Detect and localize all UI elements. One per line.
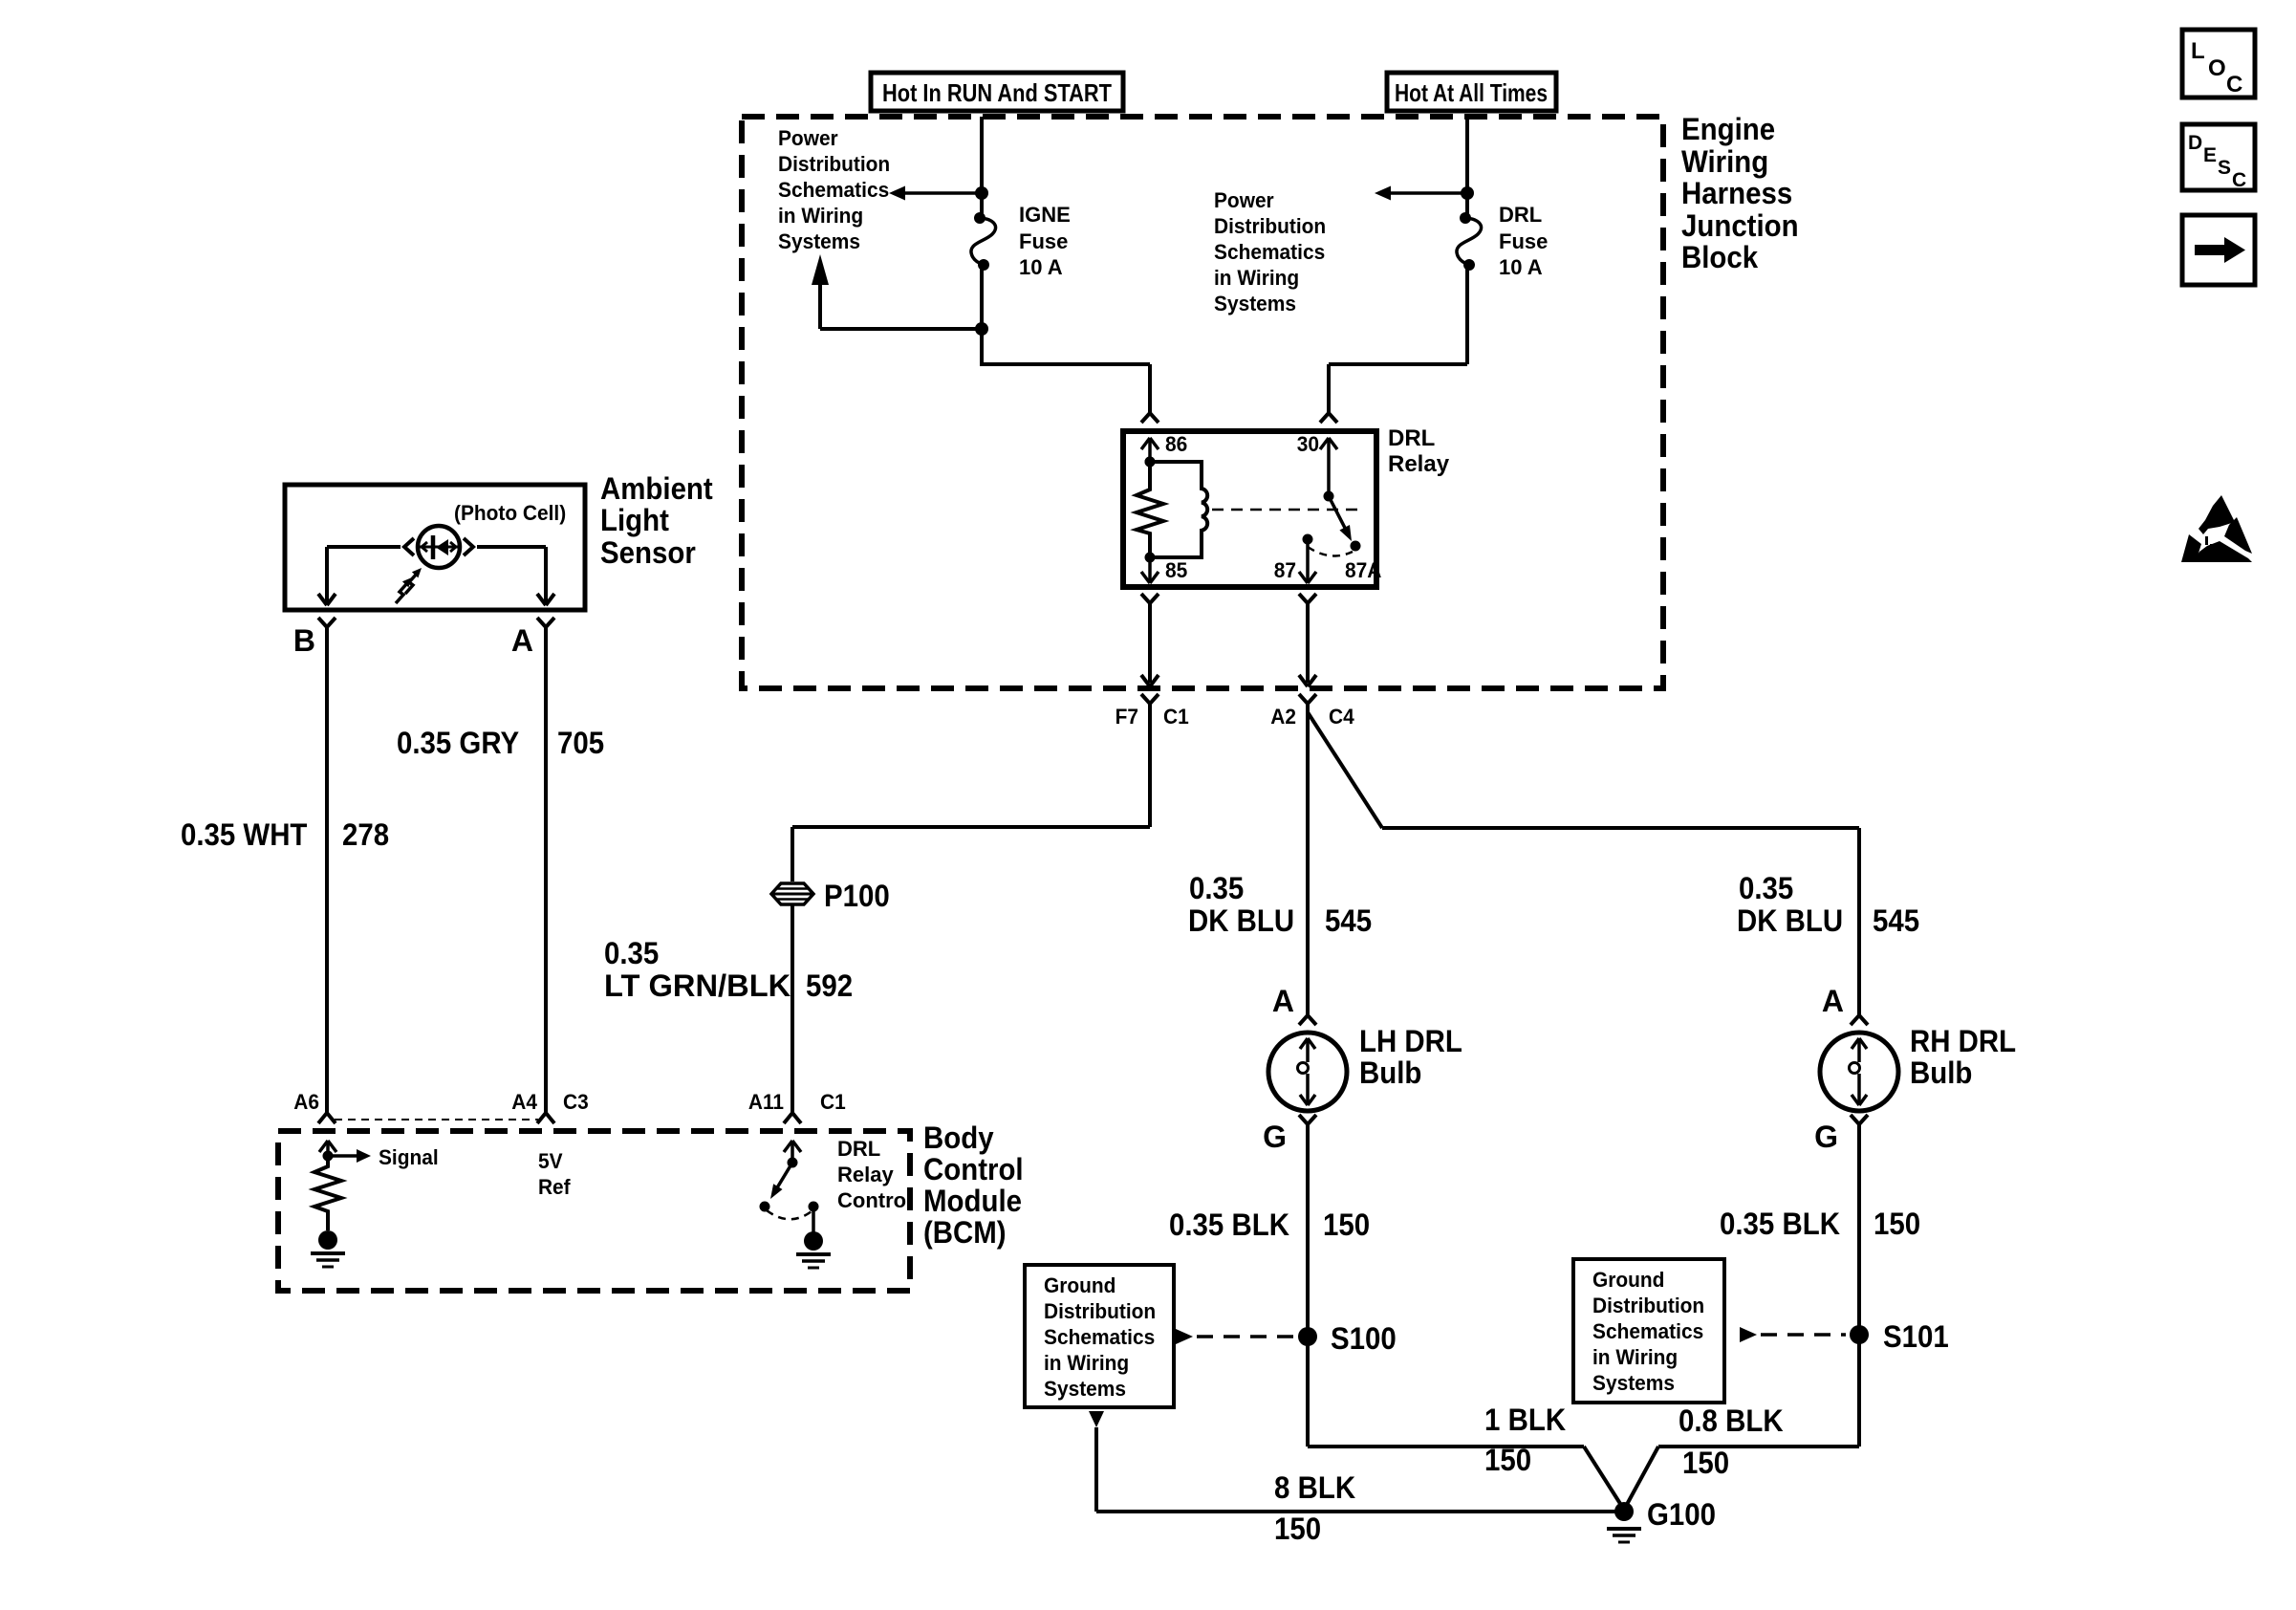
svg-text:Control: Control (837, 1188, 912, 1212)
svg-text:1 BLK: 1 BLK (1484, 1403, 1566, 1437)
svg-text:G: G (1814, 1120, 1838, 1154)
wire label: 1 BLK 150 (1484, 1403, 1566, 1477)
svg-text:150: 150 (1874, 1207, 1920, 1241)
svg-text:86: 86 (1165, 432, 1187, 456)
pin label A (sensor) (511, 623, 533, 658)
sensor pin B (male arrow) (318, 547, 336, 605)
connector fork below relay pin 85 (1141, 594, 1159, 609)
wire: relay 87 to junction block edge (A2) (1299, 609, 1316, 686)
svg-text:Wiring: Wiring (1681, 144, 1768, 179)
wire label: 0.35 WHT 278 (181, 817, 389, 852)
wire: LH bulb to S100 (1306, 1130, 1310, 1337)
fuse IGNE 10 A (971, 212, 996, 271)
svg-text:Fuse: Fuse (1499, 229, 1548, 253)
svg-text:545: 545 (1873, 903, 1919, 938)
connector label C1 (1163, 705, 1189, 729)
svg-text:in Wiring: in Wiring (1592, 1345, 1678, 1369)
svg-text:278: 278 (342, 817, 389, 852)
wire: A2 down to LH DRL bulb (1306, 709, 1310, 1010)
svg-text:A6: A6 (293, 1090, 319, 1114)
label: Engine Wiring Harness Junction Block (1681, 112, 1799, 274)
svg-text:DK BLU: DK BLU (1188, 903, 1294, 938)
node: junction to power distribution arrow (IGNE side) (975, 186, 988, 200)
svg-text:8 BLK: 8 BLK (1274, 1470, 1355, 1505)
svg-text:Systems: Systems (1592, 1371, 1675, 1395)
svg-text:0.35: 0.35 (1739, 871, 1793, 905)
connector fork below LH bulb (1299, 1115, 1316, 1130)
label: Body Control Module (BCM) (923, 1120, 1024, 1250)
node: coil top (1145, 457, 1156, 468)
svg-text:D: D (2188, 132, 2202, 154)
inline connector P100 (771, 883, 813, 904)
pin label G (RH bulb) (1814, 1120, 1838, 1154)
icon: DESC box (2182, 124, 2255, 191)
dashed actuation link coil to switch (1212, 509, 1359, 511)
svg-text:Systems: Systems (1044, 1377, 1126, 1401)
svg-text:Light: Light (600, 503, 669, 537)
inline chevron right of photo cell (464, 538, 473, 555)
connector fork at BCM A4 (537, 1105, 554, 1123)
label: Power Distribution Schematics in Wiring Systems (center) (1214, 188, 1326, 315)
svg-text:Fuse: Fuse (1019, 229, 1068, 253)
svg-text:Ambient: Ambient (600, 471, 713, 506)
svg-text:Relay: Relay (1388, 451, 1450, 477)
dashed alternate throw arc (BCM switch) (767, 1210, 812, 1219)
svg-text:0.8 BLK: 0.8 BLK (1679, 1403, 1784, 1438)
lamp RH DRL Bulb (1820, 1033, 1898, 1111)
wire: 8 BLK 150 to G100 (1096, 1510, 1622, 1513)
pin label A11 (748, 1090, 784, 1114)
wire label: 0.8 BLK 150 (1679, 1403, 1784, 1480)
fuse DRL 10 A (1457, 212, 1482, 271)
pin label A2 (1270, 705, 1296, 729)
svg-text:150: 150 (1682, 1446, 1729, 1480)
svg-text:Harness: Harness (1681, 176, 1792, 210)
svg-text:G100: G100 (1647, 1497, 1716, 1532)
BCM pin A11 male arrow + node (784, 1141, 801, 1168)
svg-text:E: E (2203, 144, 2217, 166)
svg-text:C1: C1 (1163, 705, 1189, 729)
svg-text:in Wiring: in Wiring (778, 204, 863, 228)
dashed reference link to S100 (1176, 1329, 1294, 1344)
svg-text:P100: P100 (824, 879, 890, 913)
svg-text:C: C (2232, 169, 2246, 191)
wire: battery feed from Hot In RUN And START to IGNE fuse (980, 117, 984, 214)
Ground Distribution reference box (right) (1573, 1259, 1724, 1403)
svg-text:O: O (2208, 55, 2226, 81)
wire: S100 down and over to G100 (1308, 1337, 1624, 1510)
connector C4 fork at A2 (1299, 694, 1316, 709)
label: (Photo Cell) (454, 501, 566, 525)
svg-text:LH DRL: LH DRL (1359, 1024, 1462, 1058)
svg-text:G: G (1263, 1120, 1287, 1154)
svg-text:C4: C4 (1329, 705, 1354, 729)
label: Power Distribution Schematics in Wiring Systems (left) (778, 126, 890, 253)
svg-text:DRL: DRL (1388, 425, 1435, 451)
sensor pin A (male arrow) (537, 547, 554, 605)
svg-text:C3: C3 (563, 1090, 589, 1114)
svg-text:Bulb: Bulb (1910, 1055, 1972, 1090)
svg-text:10 A: 10 A (1499, 255, 1543, 279)
wire: battery feed from Hot At All Times to DRL fuse (1465, 117, 1469, 214)
connector fork at relay pin 86 (1141, 407, 1159, 423)
connector fork at BCM A6 (318, 1105, 336, 1123)
svg-text:705: 705 (557, 726, 604, 760)
label P100 (824, 879, 890, 913)
dashed alternate throw arc 87 to 87A (1308, 547, 1353, 555)
pin label A6 (293, 1090, 319, 1114)
label: Signal (379, 1145, 439, 1169)
svg-text:in Wiring: in Wiring (1214, 266, 1299, 290)
arrow to Power Distribution Schematics (DRL side) (1375, 186, 1467, 201)
svg-text:A11: A11 (748, 1090, 784, 1114)
svg-text:A: A (1822, 984, 1844, 1018)
relay pin 30 (male arrow + node) (1320, 438, 1337, 502)
dashed reference link to S101 (1740, 1327, 1846, 1342)
wire: RH bulb to S101 (1857, 1130, 1861, 1335)
node: coil bottom (1145, 553, 1156, 563)
svg-text:Hot At All Times: Hot At All Times (1395, 78, 1548, 107)
svg-text:F7: F7 (1116, 705, 1138, 729)
Body Control Module dashed outline (278, 1131, 910, 1291)
arrow to Power Distribution Schematics (IGNE side) (889, 186, 982, 201)
svg-text:S101: S101 (1883, 1319, 1949, 1354)
inline chevron left of photo cell (404, 538, 414, 555)
pin label 85 (1165, 558, 1187, 582)
label S101 (1883, 1319, 1949, 1354)
svg-text:545: 545 (1325, 903, 1372, 938)
svg-text:Systems: Systems (778, 229, 860, 253)
icon: arrow box (2182, 215, 2255, 285)
relay coil suppression resistor (1137, 462, 1163, 557)
svg-text:Body: Body (923, 1120, 994, 1155)
wire label: 0.35 BLK 150 (LH) (1169, 1207, 1370, 1242)
svg-text:DK BLU: DK BLU (1737, 903, 1843, 938)
svg-text:Schematics: Schematics (1592, 1319, 1703, 1343)
label: IGNE Fuse 10 A (1019, 203, 1071, 279)
relay pin 86 (male arrow + node) (1141, 438, 1159, 468)
BCM internal resistor (314, 1156, 341, 1230)
svg-text:LT GRN/BLK: LT GRN/BLK (604, 968, 791, 1003)
label: LH DRL Bulb (1359, 1024, 1462, 1090)
svg-text:S100: S100 (1331, 1321, 1397, 1356)
splice S100 (1298, 1327, 1317, 1346)
wire label: 8 BLK 150 (1274, 1470, 1355, 1546)
light arrows onto photo cell (396, 568, 422, 603)
arrow up to Power Distribution Schematics (lower branch) (812, 254, 982, 329)
connector C1 fork at F7 (1141, 694, 1159, 709)
pin label A4 (511, 1090, 537, 1114)
svg-text:Ground: Ground (1592, 1268, 1664, 1292)
connector label C3 (563, 1090, 589, 1114)
svg-text:Relay: Relay (837, 1163, 894, 1186)
Engine Wiring Harness Junction Block dashed outline (742, 117, 1663, 688)
signal tap arrow (328, 1149, 371, 1163)
svg-text:A: A (1272, 984, 1294, 1018)
label: 5V Ref (538, 1149, 571, 1199)
power label box: Hot In RUN And START (871, 73, 1123, 111)
svg-text:85: 85 (1165, 558, 1187, 582)
label: DRL Relay Control (837, 1137, 912, 1212)
relay pin 85 (male arrow down) (1141, 557, 1159, 583)
relay switch arm (30 to 87A) (1329, 496, 1361, 552)
connector fork below RH bulb (1851, 1115, 1868, 1130)
DRL relay control switch arm (770, 1163, 792, 1199)
wire: sensor B to BCM A6 (325, 633, 329, 1105)
BCM internal ground (A6 branch) (311, 1230, 345, 1267)
svg-text:0.35 BLK: 0.35 BLK (1169, 1207, 1289, 1242)
connector fork above RH bulb (1851, 1010, 1868, 1025)
connector fork below sensor pin A (537, 618, 554, 633)
label: DRL Fuse 10 A (1499, 203, 1548, 279)
label G100 (1647, 1497, 1716, 1532)
node: junction feeding up-arrow branch (975, 322, 988, 336)
svg-text:Hot In RUN And START: Hot In RUN And START (882, 78, 1112, 107)
svg-text:Distribution: Distribution (1214, 214, 1326, 238)
svg-text:A: A (511, 623, 533, 658)
pin label 87A (1345, 558, 1382, 582)
svg-text:Ground: Ground (1044, 1273, 1116, 1297)
svg-text:0.35 GRY: 0.35 GRY (397, 726, 519, 760)
svg-text:Schematics: Schematics (1044, 1325, 1155, 1349)
BCM internal ground (A11 branch) (796, 1231, 831, 1268)
wire: sensor A to BCM A4 (544, 633, 548, 1105)
Ambient Light Sensor box (285, 485, 585, 610)
svg-text:0.35 WHT: 0.35 WHT (181, 817, 308, 852)
svg-text:0.35 BLK: 0.35 BLK (1720, 1207, 1840, 1241)
svg-text:Control: Control (923, 1152, 1024, 1186)
svg-text:(Photo Cell): (Photo Cell) (454, 501, 566, 525)
pin label A (RH bulb) (1822, 984, 1844, 1018)
svg-text:A2: A2 (1270, 705, 1296, 729)
svg-text:Bulb: Bulb (1359, 1055, 1421, 1090)
wire label: 0.35 BLK 150 (RH) (1720, 1207, 1920, 1241)
svg-text:Block: Block (1681, 240, 1758, 274)
connector fork below sensor pin B (318, 618, 336, 633)
svg-text:C: C (2226, 72, 2242, 98)
wire label: 0.35 DK BLU 545 (RH) (1737, 871, 1919, 938)
svg-text:5V: 5V (538, 1149, 563, 1173)
connector fork above LH bulb (1299, 1010, 1316, 1025)
svg-text:150: 150 (1323, 1207, 1370, 1242)
photo cell (photodiode) (418, 526, 460, 568)
svg-text:B: B (293, 623, 315, 658)
wire: relay 85 to junction block edge (F7) (1141, 609, 1159, 686)
reference arrow down from left ground box (1089, 1411, 1104, 1512)
wire: A2/C4 diagonal branch over to RH DRL bulb (1308, 712, 1859, 1010)
relay U: DRL Relay box (1123, 431, 1376, 587)
svg-text:87: 87 (1274, 558, 1296, 582)
svg-text:Ref: Ref (538, 1175, 571, 1199)
connector label C1 (BCM) (820, 1090, 846, 1114)
label S100 (1331, 1321, 1397, 1356)
power label box: Hot At All Times (1387, 73, 1556, 111)
wire label: 0.35 GRY 705 (397, 726, 604, 760)
pin label A (LH bulb) (1272, 984, 1294, 1018)
svg-text:RH DRL: RH DRL (1910, 1024, 2016, 1058)
svg-text:0.35: 0.35 (604, 936, 659, 970)
svg-text:in Wiring: in Wiring (1044, 1351, 1129, 1375)
connector fork at relay pin 30 (1320, 407, 1337, 423)
switch contact to ground (809, 1202, 819, 1234)
svg-text:150: 150 (1274, 1512, 1321, 1546)
svg-text:A4: A4 (511, 1090, 537, 1114)
svg-text:Power: Power (1214, 188, 1274, 212)
connector fork at BCM A11 (784, 1105, 801, 1123)
wire: DRL fuse output down and over to relay pin 30 (1329, 268, 1467, 409)
label: RH DRL Bulb (1910, 1024, 2016, 1090)
svg-text:87A: 87A (1345, 558, 1382, 582)
BCM pin A6 male arrow + node (319, 1141, 336, 1162)
svg-text:Power: Power (778, 126, 838, 150)
svg-text:L: L (2191, 38, 2205, 64)
wire label: 0.35 DK BLU 545 (LH) (1188, 871, 1372, 938)
svg-text:(BCM): (BCM) (923, 1215, 1007, 1250)
pin label G (LH bulb) (1263, 1120, 1287, 1154)
wire: F7 down, left and down to P100 and BCM A11 (792, 709, 1150, 1105)
svg-text:IGNE: IGNE (1019, 203, 1071, 227)
wire: S101 down and over to G100 (1624, 1335, 1859, 1510)
label: Ambient Light Sensor (600, 471, 713, 570)
svg-text:150: 150 (1484, 1443, 1531, 1477)
svg-text:S: S (2218, 157, 2231, 179)
svg-text:Sensor: Sensor (600, 535, 696, 570)
svg-text:Schematics: Schematics (1214, 240, 1325, 264)
svg-text:C1: C1 (820, 1090, 846, 1114)
svg-text:10 A: 10 A (1019, 255, 1063, 279)
pin label 30 (1297, 432, 1319, 456)
node: junction to power distribution arrow (DRL side) (1461, 186, 1474, 200)
svg-text:Schematics: Schematics (778, 178, 889, 202)
connector label C4 (1329, 705, 1354, 729)
pin label B (293, 623, 315, 658)
svg-text:DRL: DRL (1499, 203, 1542, 227)
ground G100 (1607, 1502, 1641, 1542)
relay pin 87 (node + male arrow down) (1299, 534, 1316, 584)
svg-text:Distribution: Distribution (778, 152, 890, 176)
svg-text:0.35: 0.35 (1189, 871, 1244, 905)
pin label 87 (1274, 558, 1296, 582)
svg-text:Systems: Systems (1214, 292, 1296, 315)
svg-text:DRL: DRL (837, 1137, 880, 1161)
splice S101 (1850, 1325, 1869, 1344)
svg-text:Engine: Engine (1681, 112, 1775, 146)
switch contact (open) (760, 1202, 770, 1212)
connector fork below relay pin 87 (1299, 594, 1316, 609)
svg-text:Distribution: Distribution (1044, 1299, 1156, 1323)
lamp LH DRL Bulb (1268, 1033, 1347, 1111)
relay coil (1150, 462, 1207, 557)
pin label 86 (1165, 432, 1187, 456)
icon: LOC box (2182, 30, 2255, 98)
photo cell sensor internal wiring (327, 545, 546, 549)
thin dashed connector line A6-A4 (335, 1119, 538, 1120)
Ground Distribution reference box (left) (1025, 1265, 1174, 1407)
svg-text:30: 30 (1297, 432, 1319, 456)
wire label: 0.35 LT GRN/BLK 592 (604, 936, 853, 1003)
icon: ESD sensitive device symbol (2181, 495, 2252, 562)
svg-text:Module: Module (923, 1184, 1022, 1218)
svg-text:Signal: Signal (379, 1145, 439, 1169)
svg-text:Distribution: Distribution (1592, 1294, 1704, 1317)
label: DRL Relay (1388, 425, 1450, 477)
svg-text:Junction: Junction (1681, 208, 1799, 243)
pin label F7 (1116, 705, 1138, 729)
wire: IGNE fuse output down and over to relay pin 86 (982, 268, 1150, 409)
svg-text:592: 592 (806, 968, 853, 1003)
